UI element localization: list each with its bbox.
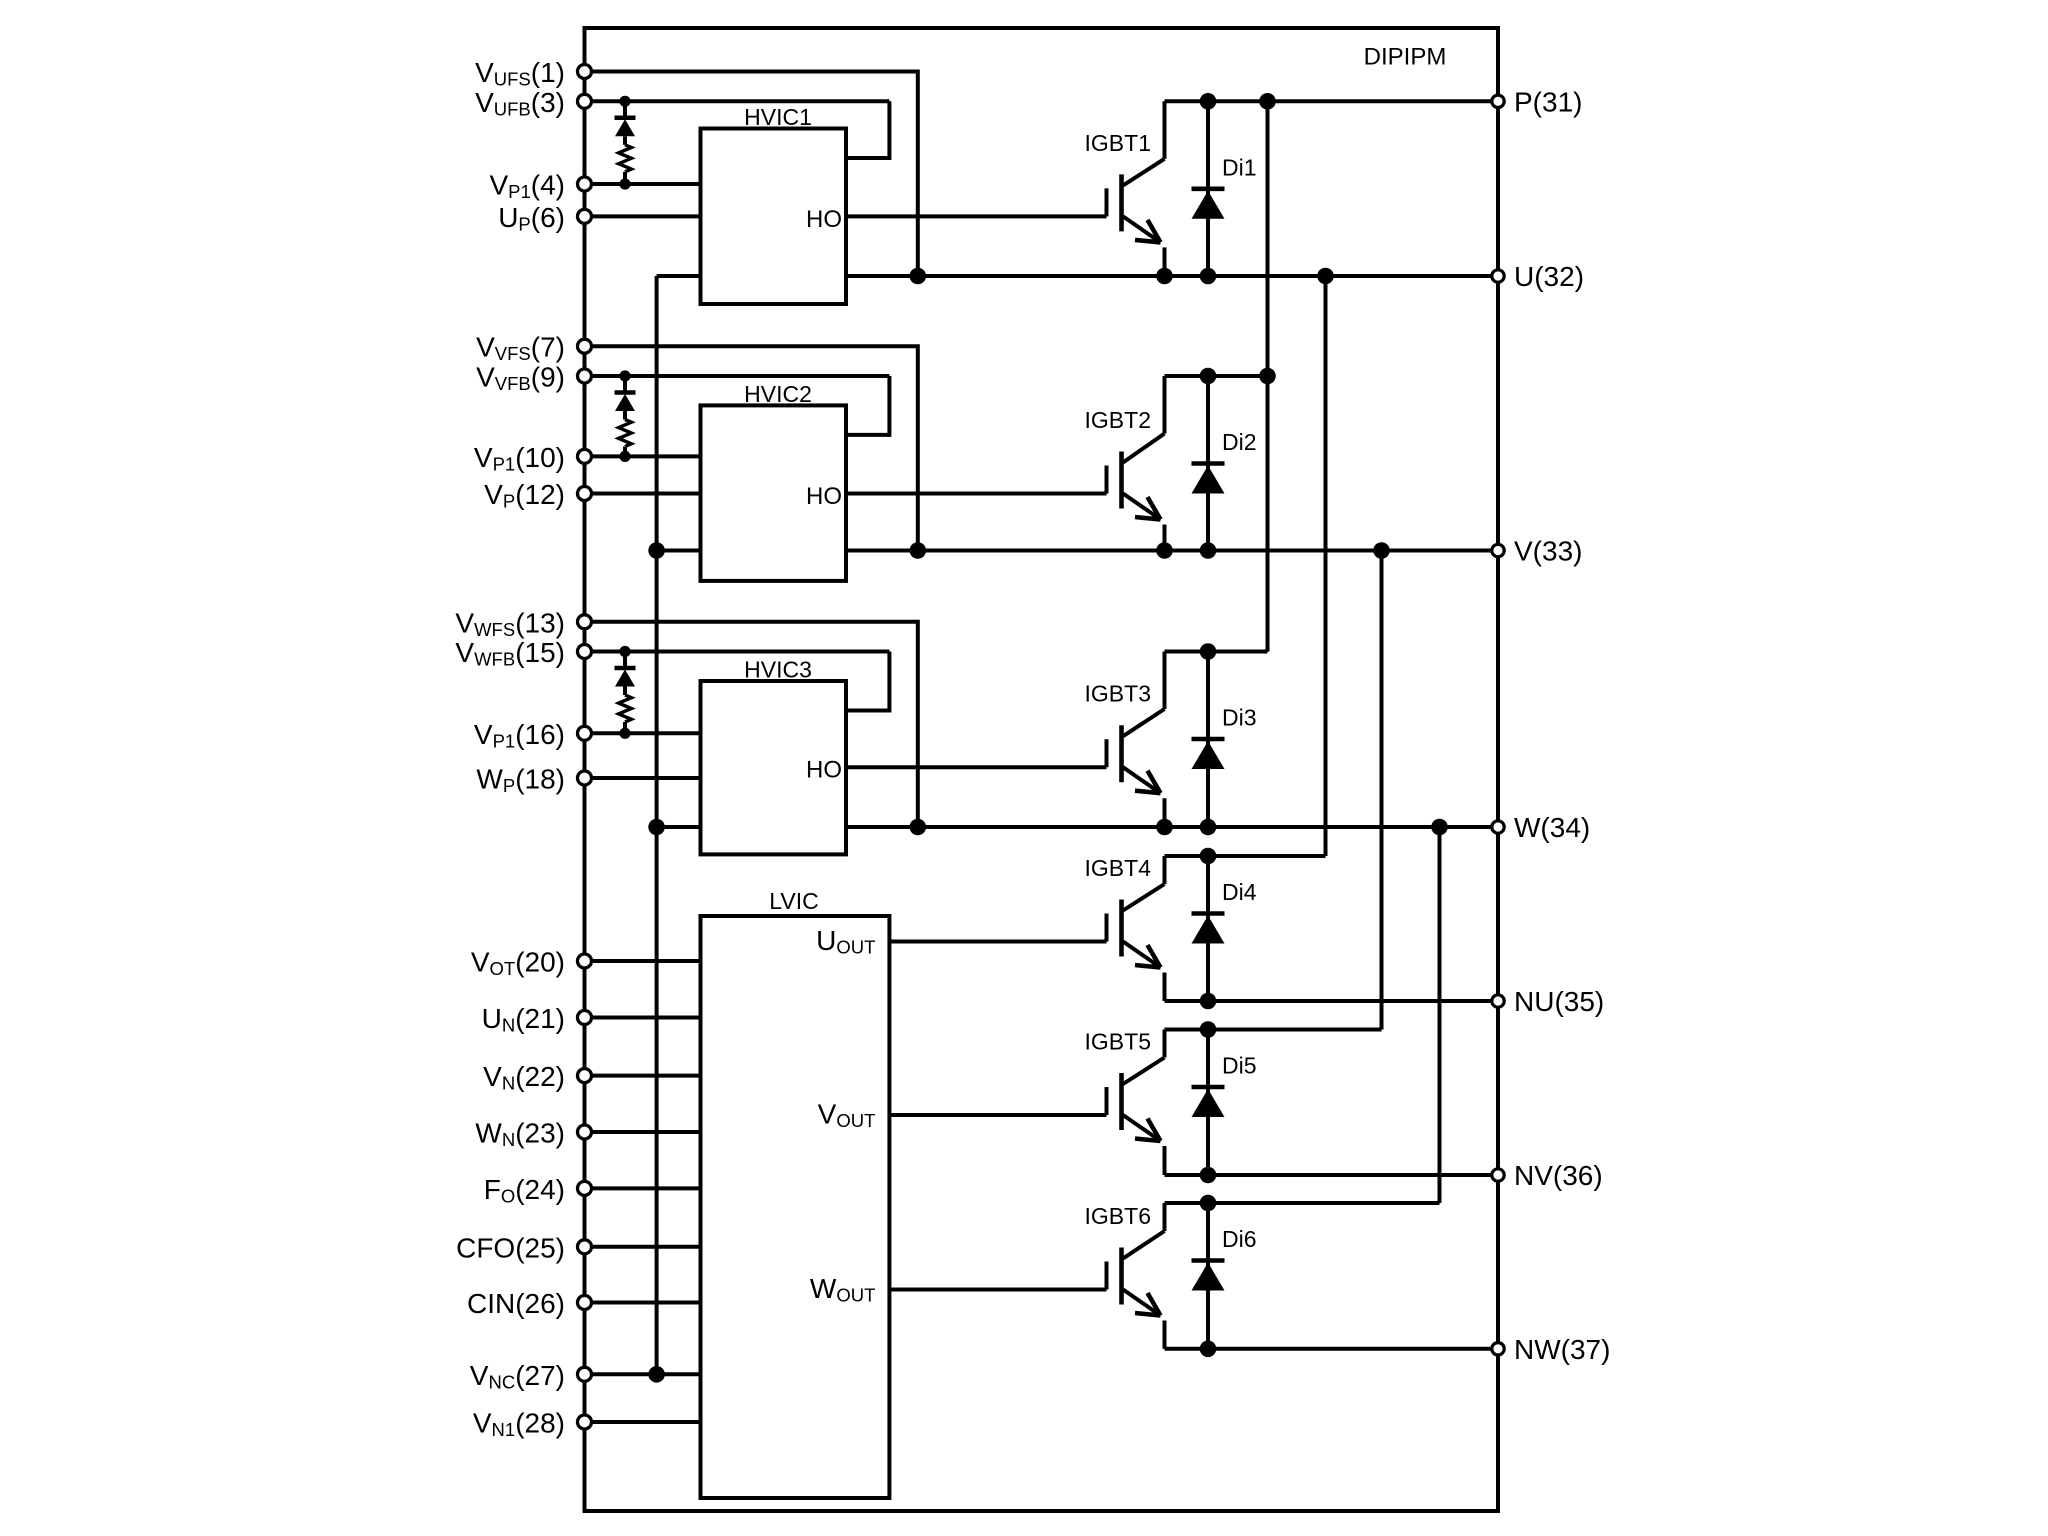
svg-text:VP1​(16): VP1​(16) [474,719,565,752]
wire HO output of HVIC3 to IGBT3 gate [846,765,1107,769]
svg-text:Di5: Di5 [1222,1053,1257,1079]
transistor IGBT4 [1163,856,1167,884]
junction IGBT emitter at phase line [1156,542,1173,559]
pin WP(18) [476,764,591,797]
wire VNC common vertical [655,276,659,1374]
wire P bus line [1165,99,1499,103]
svg-text:HO: HO [806,483,842,510]
svg-text:VNC​(27): VNC​(27) [470,1360,565,1393]
svg-text:U(32): U(32) [1514,261,1584,292]
svg-text:V(33): V(33) [1514,536,1582,567]
svg-text:VN​(22): VN​(22) [483,1061,565,1094]
wire VWFB feedback into HVIC3 [846,652,889,711]
IC HVIC3 [701,681,847,854]
svg-text:UP​(6): UP​(6) [498,202,565,235]
wire U feed vertical to IGBT4 [1324,276,1328,856]
junction Di2 cathode at collector rail [1200,368,1217,385]
wire VN input to LVIC [585,1074,701,1078]
pin UP(6) [498,202,591,235]
junction VNC at W line [648,819,665,836]
wire V phase output line [846,549,1498,553]
diode Di2 [1206,376,1210,551]
wire UOUT to gate [889,940,1106,944]
pin VP1(10) [474,442,592,475]
pin VWFB(15) [455,637,591,670]
svg-text:VN1​(28): VN1​(28) [473,1408,565,1441]
IC HVIC1 [701,129,847,305]
wire bootstrap to V_P1 [623,172,627,184]
wire gate input to HVIC2 [585,492,701,496]
bootstrap resistor [619,420,632,447]
wire CIN input to LVIC [585,1301,701,1305]
pin VUFB(3) [475,87,591,120]
pin VP(12) [484,479,591,512]
wire VVFS to V phase node [585,346,918,550]
transistor IGBT5 [1163,1030,1167,1058]
wire CFO input to LVIC [585,1245,701,1249]
wire VUFB line with bootstrap feed [585,99,890,103]
junction Di1 cathode at P line [1200,93,1217,110]
wire VWFS to W phase node [585,622,918,827]
wire IGBT6 collector rail [1165,1201,1440,1205]
wire VVFB feedback into HVIC2 [846,376,889,435]
wire gate input to HVIC3 [585,776,701,780]
pin U(32) [1492,261,1584,292]
transistor IGBT6 [1163,1203,1167,1231]
wire NW line [1165,1347,1499,1351]
svg-text:IGBT4: IGBT4 [1085,855,1152,881]
junction VNC at VNC(27) line [648,1366,665,1383]
svg-text:WP​(18): WP​(18) [476,764,565,797]
junction diode anode at phase line [1200,268,1217,285]
wire bootstrap to V_P1 [623,722,627,733]
wire VOUT to gate [889,1113,1106,1117]
svg-text:HVIC2: HVIC2 [744,381,812,407]
svg-text:HVIC3: HVIC3 [744,657,812,683]
pin UN(21) [482,1003,592,1036]
wire VNC into HVIC2 (left) [657,549,701,553]
junction (bootstrap top at V_FB line) [619,370,630,381]
junction P feed at P line [1259,93,1276,110]
diode Di4 [1206,856,1210,1001]
svg-text:NV(36): NV(36) [1514,1160,1603,1191]
junction VWFS at W line [910,819,927,836]
pin NU(35) [1492,986,1604,1017]
junction Di4 cathode at collector rail [1200,848,1217,865]
svg-text:DIPIPM: DIPIPM [1364,44,1447,71]
svg-text:VP​(12): VP​(12) [484,479,565,512]
svg-text:Di3: Di3 [1222,705,1257,731]
junction P feed at IGBT2 collector rail [1259,368,1276,385]
pin VP1(16) [474,719,592,752]
wire bootstrap vertical [623,376,627,393]
wire WOUT to gate [889,1288,1106,1292]
wire WN input to LVIC [585,1130,701,1134]
svg-text:CFO(25): CFO(25) [456,1232,565,1263]
transistor IGBT3 [1163,652,1167,710]
svg-text:Di4: Di4 [1222,879,1257,905]
wire gate input to HVIC1 [585,214,701,218]
junction diode anode at N line [1200,993,1217,1010]
junction (bootstrap bottom at V_P1 line) [619,451,630,462]
junction Di6 cathode at collector rail [1200,1195,1217,1212]
pin V(33) [1492,536,1583,567]
pin VOT(20) [471,947,592,980]
svg-text:LVIC: LVIC [769,888,818,914]
junction Di5 cathode at collector rail [1200,1021,1217,1038]
junction IGBT emitter at phase line [1156,819,1173,836]
svg-text:FO​(24): FO​(24) [484,1174,565,1207]
pin FO(24) [484,1174,592,1207]
diode Di3 [1206,652,1210,828]
IC HVIC2 [701,405,847,581]
svg-text:W(34): W(34) [1514,812,1590,843]
junction (bootstrap bottom at V_P1 line) [619,178,630,189]
wire bootstrap to V_P1 [623,447,627,457]
bootstrap resistor [619,145,632,172]
pin W(34) [1492,812,1590,843]
wire IGBT5 collector rail [1165,1028,1382,1032]
wire W feed vertical to IGBT6 [1438,827,1442,1203]
svg-text:HO: HO [806,757,842,784]
junction VNC at V line [648,542,665,559]
diode Di6 [1206,1203,1210,1349]
wire V_P1 input to HVIC2 [585,454,701,458]
wire VUFS to U phase node [585,72,918,277]
pin CIN(26) [467,1288,592,1319]
diode Di5 [1206,1030,1210,1176]
svg-text:IGBT1: IGBT1 [1085,130,1151,156]
pin P(31) [1492,86,1583,117]
wire HO output of HVIC2 to IGBT2 gate [846,492,1107,496]
pin NW(37) [1492,1334,1611,1365]
junction (bootstrap bottom at V_P1 line) [619,728,630,739]
bootstrap diode [615,390,636,395]
svg-text:Di2: Di2 [1222,429,1257,455]
wire VWFB line with bootstrap feed [585,650,890,654]
pin VVFS(7) [476,332,591,365]
pin VNC(27) [470,1360,592,1393]
svg-text:VP1​(10): VP1​(10) [474,442,565,475]
junction (bootstrap top at V_FB line) [619,646,630,657]
wire HO output of HVIC1 to IGBT1 gate [846,214,1107,218]
svg-text:P(31): P(31) [1514,86,1582,117]
wire VNC into HVIC1 (left) [657,274,701,278]
junction diode anode at N line [1200,1167,1217,1184]
wire bootstrap vertical [623,101,627,118]
svg-text:CIN(26): CIN(26) [467,1288,565,1319]
pin VWFS(13) [455,607,591,640]
junction diode anode at phase line [1200,542,1217,559]
junction VUFS at U line [910,268,927,285]
wire IGBT2 collector rail [1165,374,1268,378]
svg-text:NW(37): NW(37) [1514,1334,1610,1365]
junction diode anode at N line [1200,1341,1217,1358]
pin NV(36) [1492,1160,1603,1191]
pin VN1(28) [473,1408,592,1441]
wire VNC into HVIC3 (left) [657,825,701,829]
junction U feed at U line [1317,268,1334,285]
svg-text:WN​(23): WN​(23) [475,1118,565,1151]
pin VUFS(1) [475,57,591,90]
svg-text:IGBT5: IGBT5 [1085,1029,1151,1055]
wire V_P1 input to HVIC1 [585,182,701,186]
wire P feed vertical to lower phases [1266,101,1270,651]
svg-text:IGBT2: IGBT2 [1085,407,1151,433]
pin VVFB(9) [476,362,591,395]
wire IGBT3 collector rail [1165,650,1268,654]
wire VUFB feedback into HVIC1 [846,101,889,158]
wire W phase output line [846,825,1498,829]
junction diode anode at phase line [1200,819,1217,836]
wire VVFB line with bootstrap feed [585,374,890,378]
svg-text:HO: HO [806,206,842,233]
diode Di1 [1206,101,1210,276]
pin WN(23) [475,1118,591,1151]
wire V feed vertical to IGBT5 [1380,551,1384,1030]
wire V_P1 input to HVIC3 [585,731,701,735]
junction W feed at W line [1431,819,1448,836]
wire U phase output line [846,274,1498,278]
wire VOT input to LVIC [585,959,701,963]
junction (bootstrap top at V_FB line) [619,96,630,107]
svg-text:Di1: Di1 [1222,154,1257,180]
wire IGBT4 collector rail [1165,854,1326,858]
junction VVFS at V line [910,542,927,559]
wire NU line [1165,999,1499,1003]
wire FO input to LVIC [585,1186,701,1190]
pin VP1(4) [489,170,591,203]
pin CFO(25) [456,1232,591,1263]
junction IGBT emitter at phase line [1156,268,1173,285]
svg-text:NU(35): NU(35) [1514,986,1604,1017]
wire VN1 input to LVIC [585,1420,701,1424]
junction V feed at V line [1373,542,1390,559]
bootstrap resistor [619,695,632,722]
svg-text:IGBT3: IGBT3 [1085,681,1151,707]
svg-text:HVIC1: HVIC1 [744,104,812,130]
wire bootstrap vertical [623,652,627,669]
transistor IGBT2 [1163,376,1167,434]
wire NV line [1165,1173,1499,1177]
svg-text:VOT​(20): VOT​(20) [471,947,565,980]
svg-text:UN​(21): UN​(21) [482,1003,565,1036]
junction Di3 cathode at collector rail [1200,643,1217,660]
DIPIPM package outline [585,28,1499,1511]
pin VN(22) [483,1061,591,1094]
bootstrap diode [615,666,636,671]
wire UN input to LVIC [585,1016,701,1020]
bootstrap diode [615,116,636,121]
svg-text:Di6: Di6 [1222,1226,1257,1252]
IC LVIC [701,916,890,1498]
wire VNC input to LVIC [585,1372,701,1376]
transistor IGBT1 [1163,101,1167,159]
svg-text:IGBT6: IGBT6 [1085,1203,1151,1229]
